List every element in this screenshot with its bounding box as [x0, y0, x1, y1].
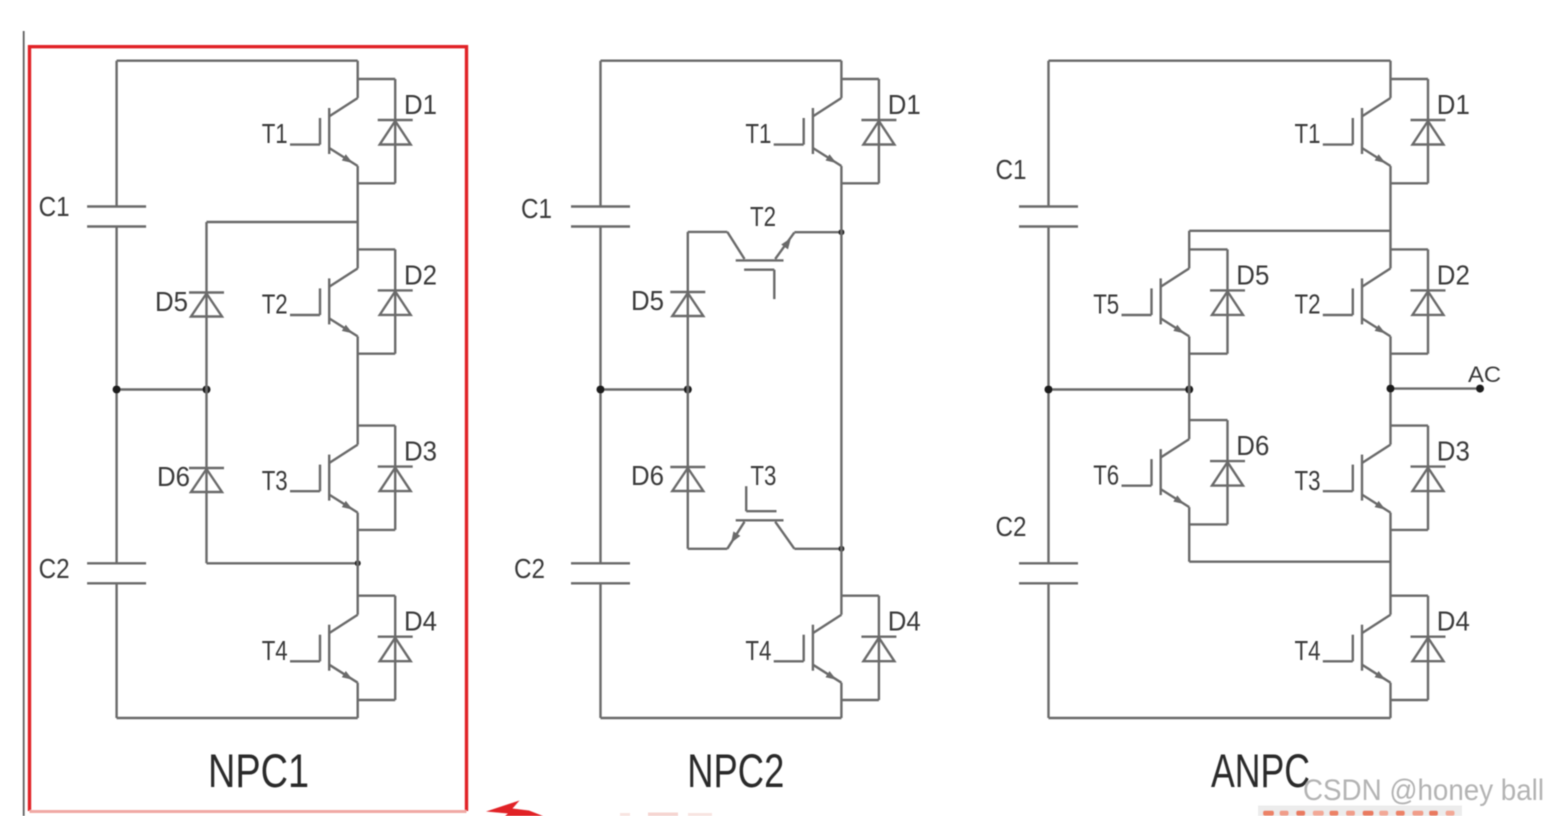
wire: clamp lower link (D6 to T3-T4) [207, 562, 358, 564]
wire: D6 top branch [1189, 419, 1227, 421]
capacitor C2 [996, 511, 1079, 583]
wire: D2 bottom branch [1391, 353, 1429, 355]
wire: T6 collector feed from neutral [1188, 390, 1190, 440]
svg-text:C2: C2 [514, 553, 545, 584]
diode D5 [155, 222, 224, 390]
svg-text:D5: D5 [631, 285, 664, 316]
wire: DC rail middle segment [115, 227, 117, 564]
svg-text:T3: T3 [1295, 465, 1321, 496]
wire: D3 bottom branch [1391, 529, 1429, 531]
transistor T1 [262, 98, 358, 166]
svg-text:T5: T5 [1093, 289, 1119, 320]
wire: D4 top branch [841, 595, 879, 597]
wire: T2 collector link from clamp leg [688, 231, 728, 233]
svg-text:D1: D1 [1437, 89, 1470, 120]
wire: NPC2 top DC bus [601, 60, 842, 62]
svg-text:T1: T1 [262, 118, 288, 149]
wire: D4 bottom branch [1391, 699, 1429, 701]
wire: T4 emitter to bottom bus [1389, 683, 1391, 718]
node: junction T3-T4 / D6 [355, 560, 361, 566]
wire: D4 bottom branch [358, 699, 396, 701]
transistor T5 [1093, 268, 1189, 336]
capacitor C2 [39, 553, 147, 584]
svg-text:C2: C2 [996, 511, 1027, 542]
svg-text:D2: D2 [1437, 259, 1470, 290]
wire: D1 bottom branch [841, 182, 879, 184]
transistor T1 [1295, 98, 1391, 166]
wire: DC rail middle segment [599, 227, 601, 564]
wire: phase leg T2-T3 [1389, 336, 1391, 444]
wire: phase leg T3-T4 [357, 513, 359, 615]
wire: T6 emitter link (lower cross wire) [1189, 561, 1390, 563]
wire: D1 top branch [1391, 78, 1429, 80]
wire: ANPC top DC bus [1049, 60, 1391, 62]
svg-text:D4: D4 [1437, 606, 1470, 637]
svg-text:D5: D5 [155, 286, 188, 317]
diode D2 [1411, 249, 1470, 353]
wire: D1 top branch [358, 78, 396, 80]
diode D4 [378, 596, 437, 700]
wire: NPC2 bottom DC bus [601, 717, 842, 719]
wire: T3 emitter link from clamp leg [688, 548, 728, 550]
node: NPC1 neutral at rail [113, 386, 121, 394]
diode D3 [1411, 426, 1470, 530]
node: junction T2 emitter on leg [838, 229, 844, 235]
wire: D2 top branch [358, 248, 396, 250]
wire: ANPC bottom DC bus [1049, 717, 1391, 719]
diode D4 [1411, 596, 1470, 700]
wire: D6 bottom branch [1189, 523, 1227, 525]
red callout arrow pointing at NPC1 box [486, 801, 543, 816]
capacitor C1 [39, 191, 147, 227]
wire: NPC1 neutral link [117, 388, 207, 390]
wire: D3 bottom branch [358, 529, 396, 531]
svg-text:C1: C1 [996, 154, 1027, 185]
wire: D4 top branch [358, 595, 396, 597]
node: AC terminal [1476, 385, 1484, 393]
diode D1 [861, 79, 920, 183]
svg-text:D4: D4 [888, 606, 921, 637]
wire: ANPC neutral link [1049, 388, 1190, 390]
node: NPC2 neutral at clamp leg [684, 386, 692, 394]
svg-text:T2: T2 [262, 289, 288, 320]
svg-text:D3: D3 [404, 436, 437, 467]
wire: DC rail middle segment [1047, 227, 1049, 564]
wire: D2 bottom branch [358, 353, 396, 355]
svg-text:T6: T6 [1093, 459, 1119, 490]
svg-text:T1: T1 [745, 118, 771, 149]
svg-text:T3: T3 [750, 460, 776, 491]
highlight box around NPC1 [30, 47, 467, 812]
wire: T1 collector feed [1389, 61, 1391, 98]
wire: D2 top branch [1391, 248, 1429, 250]
svg-text:T1: T1 [1295, 118, 1321, 149]
svg-text:ANPC: ANPC [1211, 744, 1310, 797]
transistor T2 [262, 268, 358, 336]
transistor T2 (horizontal) [727, 201, 794, 299]
wire: phase leg T1-T2 [1389, 166, 1391, 268]
svg-text:T2: T2 [750, 201, 776, 232]
wire: D1 top branch [841, 78, 879, 80]
transistor T4 [262, 615, 358, 683]
wire: T4 emitter to bottom bus [357, 683, 359, 718]
wire: phase leg T1 to T4 [840, 166, 842, 615]
wire: DC rail lower segment [1047, 583, 1049, 718]
wire: DC rail upper segment [115, 61, 117, 207]
wire: NPC1 bottom DC bus [117, 717, 358, 719]
wire: D1 bottom branch [1391, 182, 1429, 184]
diode D2 [378, 249, 437, 353]
transistor T4 [1295, 615, 1391, 683]
wire: DC rail lower segment [115, 583, 117, 718]
wire: T1 collector feed [357, 61, 359, 98]
capacitor C1 [521, 193, 630, 227]
wire: T4 emitter to bottom bus [840, 683, 842, 718]
diode D3 [378, 426, 437, 530]
transistor T1 [745, 98, 841, 166]
svg-text:C1: C1 [39, 191, 70, 222]
wire: D3 top branch [1391, 424, 1429, 426]
wire: DC rail upper segment [1047, 61, 1049, 207]
wire: T2 emitter link to phase leg [794, 231, 841, 233]
diode D5 [631, 232, 705, 390]
diode D1 [378, 79, 437, 183]
diode D6 [157, 390, 224, 564]
wire: DC rail upper segment [599, 61, 601, 207]
svg-text:T4: T4 [262, 635, 288, 666]
wire: D1 bottom branch [358, 182, 396, 184]
watermark red text row (cut off) [1263, 811, 1274, 816]
wire: phase leg T3-T4 [1389, 513, 1391, 615]
wire: T5 collector feed [1188, 231, 1190, 269]
node: junction T3 collector on leg [838, 546, 844, 552]
svg-text:T4: T4 [1295, 635, 1321, 666]
wire: D5 bottom branch [1189, 353, 1227, 355]
diode D1 [1411, 79, 1470, 183]
wire: T3 collector link to phase leg [794, 548, 841, 550]
svg-text:C2: C2 [39, 553, 70, 584]
wire: DC rail lower segment [599, 583, 601, 718]
svg-text:T4: T4 [745, 635, 771, 666]
svg-text:D6: D6 [631, 460, 664, 491]
left page border line [23, 31, 25, 816]
svg-text:D6: D6 [1236, 430, 1269, 461]
svg-text:NPC2: NPC2 [687, 744, 784, 797]
wire: clamp upper link (D5 to T1-T2) [207, 221, 358, 223]
svg-text:T3: T3 [262, 465, 288, 496]
wire: phase leg T2-T3 [357, 336, 359, 444]
capacitor C2 [514, 553, 630, 584]
svg-text:D1: D1 [888, 89, 921, 120]
svg-text:C1: C1 [521, 193, 552, 224]
svg-text:AC: AC [1468, 362, 1501, 387]
svg-text:D2: D2 [404, 259, 437, 290]
wire: D5 top branch [1189, 248, 1227, 250]
node: ANPC neutral at T5-T6 leg [1185, 386, 1193, 394]
transistor T3 (horizontal) [727, 460, 794, 549]
node: ANPC neutral at rail [1045, 386, 1053, 394]
svg-text:D1: D1 [404, 89, 437, 120]
svg-text:T2: T2 [1295, 289, 1321, 320]
node: AC tap on phase leg [1387, 385, 1395, 393]
diode D5 [1210, 249, 1269, 353]
transistor T4 [745, 615, 841, 683]
wire: phase leg T1-T2 [357, 166, 359, 268]
wire: AC output stub [1391, 387, 1481, 389]
wire: T1 collector feed [840, 61, 842, 98]
watermark background strip [1258, 806, 1462, 816]
svg-text:D5: D5 [1236, 259, 1269, 290]
svg-text:CSDN @honey ball: CSDN @honey ball [1303, 774, 1544, 807]
diode D4 [861, 596, 920, 700]
diode D6 [631, 390, 705, 549]
svg-text:D4: D4 [404, 606, 437, 637]
transistor T3 [1295, 445, 1391, 513]
svg-text:D3: D3 [1437, 436, 1470, 467]
node: NPC2 neutral at rail [597, 386, 605, 394]
svg-text:NPC1: NPC1 [208, 744, 309, 797]
transistor T6 [1093, 439, 1189, 507]
wire: T5 collector link (upper cross wire) [1189, 230, 1390, 232]
svg-text:D6: D6 [157, 461, 190, 492]
wire: NPC2 neutral link [601, 388, 688, 390]
capacitor C1 [996, 154, 1079, 227]
transistor T2 [1295, 268, 1391, 336]
transistor T3 [262, 445, 358, 513]
diode D6 [1210, 420, 1269, 524]
wire: D4 bottom branch [841, 699, 879, 701]
wire: NPC1 top DC bus [117, 60, 358, 62]
faint cut-off red marks bottom center [620, 813, 630, 816]
wire: D3 top branch [358, 424, 396, 426]
wire: D4 top branch [1391, 595, 1429, 597]
wire: T5 emitter to neutral [1188, 336, 1190, 389]
wire: T6 emitter segment [1188, 507, 1190, 562]
node: NPC1 neutral at clamp leg [203, 386, 211, 394]
